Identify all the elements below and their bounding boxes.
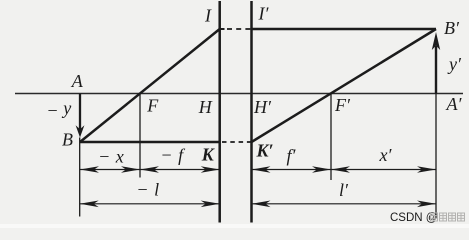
dimension arrow -f (140, 169, 220, 171)
bottom light strip (0, 224, 469, 228)
ray B to K parallel to axis (80, 141, 220, 143)
svg-text:I: I (204, 6, 212, 26)
svg-text:− x: − x (98, 147, 124, 167)
svg-text:H′: H′ (253, 97, 272, 117)
svg-text:− l: − l (136, 180, 159, 200)
dashed segment I to I' (227, 28, 251, 30)
svg-text:K: K (201, 145, 216, 165)
dimension arrow -l (80, 203, 220, 205)
ray B through F to I (80, 29, 220, 142)
watermark CJK glyph 3 (449, 213, 456, 221)
watermark CJK glyph 1 (431, 213, 438, 221)
svg-text:y: y (61, 98, 71, 118)
svg-text:l′: l′ (339, 180, 349, 200)
image arrow A' to B' (height y') (432, 32, 440, 94)
svg-text:A: A (71, 71, 84, 91)
watermark CJK glyph 2 (440, 213, 447, 221)
dimension extension line below B (79, 138, 81, 217)
principal plane H (218, 1, 221, 223)
ray I' to B' parallel to axis (252, 28, 437, 30)
svg-text:−: − (46, 101, 58, 121)
watermark CJK glyph 4 (458, 213, 465, 221)
dimension extension line below A' (435, 94, 437, 219)
optical axis (15, 93, 463, 95)
principal plane H' (250, 1, 253, 223)
dimension extension line below F (139, 94, 141, 178)
svg-text:y′: y′ (447, 54, 462, 74)
svg-text:− f: − f (160, 145, 186, 165)
svg-text:x′: x′ (379, 145, 393, 165)
svg-text:F′: F′ (334, 95, 351, 115)
svg-text:A′: A′ (446, 94, 463, 114)
object arrow A to B (height -y) (76, 94, 85, 138)
svg-text:H: H (198, 97, 213, 117)
dimension arrow x' (331, 169, 436, 171)
dimension arrow f' (252, 169, 332, 171)
dimension arrow l' (252, 203, 437, 205)
svg-text:F: F (146, 96, 159, 116)
svg-text:f′: f′ (287, 146, 297, 166)
svg-text:B′: B′ (444, 18, 460, 38)
dimension arrow -x (80, 169, 140, 171)
ray K' through F' to B' (252, 29, 437, 142)
svg-text:K′: K′ (255, 141, 273, 161)
dimension extension line below F' (330, 94, 332, 181)
svg-text:B: B (62, 130, 73, 150)
solid stub right of I (220, 28, 225, 30)
svg-text:I′: I′ (258, 4, 270, 24)
dashed segment K to K' (222, 141, 251, 143)
